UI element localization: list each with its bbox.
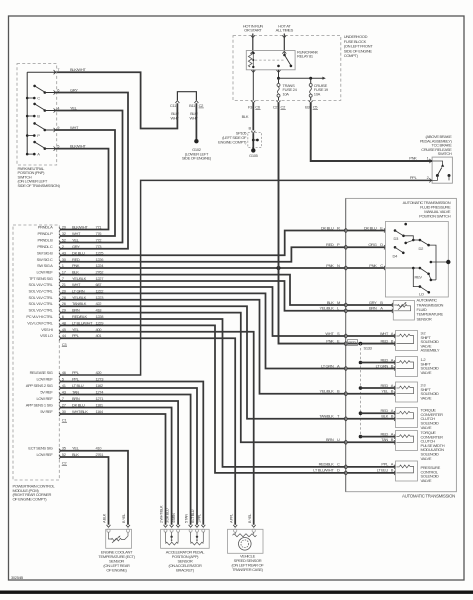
svg-text:TFT SENS SIG: TFT SENS SIG (29, 276, 53, 281)
svg-text:SOL VLV CTRL: SOL VLV CTRL (29, 282, 54, 287)
svg-text:5 TAN: 5 TAN (185, 514, 189, 523)
svg-text:VLV LOW CTRL: VLV LOW CTRL (27, 320, 53, 325)
ECT thermistor (109, 532, 112, 539)
wire DK BLU E into MVPS (347, 230, 385, 232)
svg-text:D3: D3 (394, 236, 400, 241)
svg-text:PRNDL C: PRNDL C (37, 244, 53, 249)
park/neutral position switch dashed box (17, 64, 57, 165)
MVPS switch D4 (394, 246, 397, 249)
1-2 shift solenoid valve coil (396, 362, 399, 364)
svg-text:TRANSFER CASE): TRANSFER CASE) (232, 567, 263, 572)
svg-text:B: B (391, 437, 394, 442)
wire BRN 1271 to APP pin 4 (60, 401, 178, 525)
wire TAN B to TCC PWM solenoid (347, 441, 396, 443)
wire YEL 400 to VSS (60, 332, 253, 525)
splice pack SP105 (248, 133, 262, 148)
svg-text:2: 2 (427, 175, 430, 180)
svg-text:C6: C6 (255, 105, 261, 110)
svg-text:ASSEMBLY: ASSEMBLY (421, 348, 440, 353)
PNP switch contact P (26, 134, 29, 137)
PNP common bus (26, 72, 28, 154)
trans connector pin N/C (PNK) (344, 266, 345, 270)
svg-text:D: D (380, 242, 383, 247)
torque converter clutch solenoid valve coil (396, 412, 399, 414)
wire YEL 772 PNP to PCM (55, 111, 123, 243)
svg-text:COMPT): COMPT) (344, 53, 359, 58)
svg-text:OR START: OR START (244, 28, 262, 33)
wire PPL 420 switch to PCM RELEASE SIG (60, 180, 432, 375)
svg-text:B: B (391, 468, 394, 473)
svg-text:A: A (391, 408, 394, 413)
svg-text:C: C (37, 96, 40, 101)
connector C2/C2 (277, 101, 281, 103)
wire BLK/WHT 771 PNP to PCM (55, 149, 109, 230)
svg-text:LOW REF: LOW REF (37, 377, 54, 382)
ground G102 (194, 139, 198, 143)
fuse CRUISE FUSE 19 10A (310, 78, 312, 83)
connector C11 (175, 101, 179, 103)
wire YEL B to 2-3 solenoid (347, 393, 396, 395)
APP pin 3 DK BLU (170, 525, 174, 527)
svg-text:SOL VLV CTRL: SOL VLV CTRL (29, 295, 54, 300)
wire WHT 687 to trans S (60, 287, 345, 336)
jumper C11 to B11 (177, 92, 196, 101)
svg-text:WHT: WHT (70, 125, 79, 130)
svg-text:WHT: WHT (170, 115, 179, 120)
svg-text:T: T (337, 414, 340, 419)
svg-text:RED: RED (381, 383, 389, 388)
wire PNK 1224 to trans N (60, 267, 345, 269)
wire: HOT IN RUN feed to relay coil (252, 34, 254, 51)
trans connector pass-through line (345, 198, 347, 491)
ground G105 (251, 148, 255, 152)
svg-text:P: P (337, 242, 340, 247)
3-2 shift solenoid valve assembly coil (396, 335, 399, 337)
svg-text:BRACKET): BRACKET) (176, 568, 195, 573)
APP pin 4 BRN (176, 525, 180, 527)
svg-text:S133: S133 (364, 346, 373, 351)
fuse TRANS FUSE 24 10A (278, 78, 280, 83)
VSS pin A PPL (233, 525, 237, 527)
wire PNK C into MVPS (347, 267, 385, 269)
wire RED A to 2-3 solenoid (361, 387, 396, 389)
svg-text:A: A (391, 431, 394, 436)
svg-text:6: 6 (57, 87, 60, 92)
svg-text:B: B (248, 126, 251, 131)
svg-text:PNK: PNK (409, 155, 417, 160)
svg-text:PC VLV HI CTRL: PC VLV HI CTRL (26, 314, 53, 319)
svg-text:A: A (337, 363, 340, 368)
svg-text:M: M (337, 300, 340, 305)
PNP switch contact B (26, 115, 29, 118)
trans connector pin S/A (WHT) (344, 334, 345, 338)
svg-text:U: U (337, 437, 340, 442)
MVPS switch REV (420, 268, 429, 274)
svg-text:REV: REV (415, 275, 423, 280)
wire GRY 773 PNP to PCM (55, 93, 129, 249)
svg-text:E: E (380, 225, 383, 230)
svg-text:APP SENS 1 SIG: APP SENS 1 SIG (26, 403, 53, 408)
svg-text:PRNDL B: PRNDL B (38, 238, 54, 243)
wire BRN A into TFT sensor (347, 310, 393, 312)
wire WHT A to 3-2 solenoid (347, 335, 396, 337)
wire TAN/BLK 422 to trans T (60, 306, 345, 419)
underhood fuse block dashed box (233, 36, 341, 101)
svg-text:SOL VLV CTRL: SOL VLV CTRL (29, 301, 54, 306)
svg-text:LT GRN: LT GRN (376, 363, 389, 368)
MVPS PNK row to REV (386, 267, 420, 269)
svg-text:AUTOMATIC TRANSMISSION: AUTOMATIC TRANSMISSION (402, 494, 455, 499)
wire ORG D into MVPS (347, 246, 385, 248)
trans connector pin C/A (RED/BLK) (344, 465, 345, 469)
svg-text:10A: 10A (314, 91, 321, 96)
label RED boxed (348, 340, 358, 346)
svg-text:POSITION SWITCH: POSITION SWITCH (419, 214, 451, 219)
wire LT BLU/WHT 1229 to trans D (60, 325, 345, 473)
svg-text:RELAY 81: RELAY 81 (297, 54, 314, 59)
switch internals (432, 161, 443, 164)
MVPS bus to output (429, 245, 436, 280)
svg-text:ENGINE COMPT): ENGINE COMPT) (218, 139, 247, 144)
svg-text:LOW REF: LOW REF (37, 452, 54, 457)
svg-text:WHT: WHT (72, 231, 81, 236)
svg-text:G105: G105 (249, 153, 259, 158)
svg-text:P: P (37, 133, 40, 138)
wire DK BLU 1225 to trans R (60, 231, 345, 256)
relay pin exits (251, 70, 255, 72)
VSS pickup coil (234, 532, 236, 534)
footer bar (0, 591, 473, 594)
wire DK BLU 1161 to APP pin 3 (60, 408, 171, 525)
svg-text:PNK: PNK (369, 263, 377, 268)
svg-text:A: A (37, 152, 40, 157)
svg-text:BLK: BLK (327, 300, 334, 305)
wire GRY B into TFT sensor (347, 304, 393, 306)
wire BLK/WHT circuit to C11 (55, 72, 178, 128)
APP sensor box (161, 529, 210, 548)
svg-text:OF ENGINE COMPT): OF ENGINE COMPT) (13, 496, 48, 501)
svg-text:ORG: ORG (368, 242, 376, 247)
wire BRN 418 to trans U (60, 313, 345, 443)
svg-text:GRY: GRY (70, 87, 78, 92)
svg-text:B: B (391, 389, 394, 394)
wire PNK from TRANS fuse to trans E (279, 103, 345, 344)
trans connector pin A/B (LT GRN) (344, 366, 345, 370)
svg-text:10A: 10A (283, 91, 290, 96)
wire PPL 401 to VSS (60, 338, 235, 525)
VSS pin B YEL (252, 525, 256, 527)
svg-text:DK BLU: DK BLU (364, 225, 377, 230)
svg-text:SIDE OF TRANSMISSION): SIDE OF TRANSMISSION) (18, 183, 61, 188)
MVPS branch to LO (413, 268, 420, 287)
svg-text:B: B (37, 114, 40, 119)
svg-text:ECT SENS SIG: ECT SENS SIG (28, 446, 52, 451)
PNP pin 4 (54, 108, 55, 112)
svg-text:LOW REF: LOW REF (37, 270, 54, 275)
wire PPL 1273 to APP pin 1 (60, 382, 203, 525)
svg-text:4 BRN: 4 BRN (172, 513, 176, 523)
S133 branch dot at 436.6 (359, 435, 363, 439)
wire BLK/WHT to ground (195, 103, 197, 139)
svg-text:D: D (337, 468, 340, 473)
svg-text:A: A (380, 306, 383, 311)
splice: PNK feed junction (276, 266, 280, 270)
svg-text:PRNDL P: PRNDL P (38, 231, 54, 236)
svg-text:A: A (391, 462, 394, 467)
svg-text:A BLK: A BLK (103, 513, 107, 523)
pressure control solenoid valve coil (396, 466, 399, 468)
svg-text:B: B (380, 300, 383, 305)
automatic transmission box (346, 198, 457, 491)
PNP switch contact C (26, 97, 29, 100)
wire BLK from F3 to SP105 (252, 103, 254, 130)
switch pin 2 (432, 176, 437, 181)
svg-text:VSS LO: VSS LO (40, 333, 53, 338)
svg-text:C2: C2 (62, 461, 68, 466)
svg-text:APP SENS 2 SIG: APP SENS 2 SIG (26, 383, 53, 388)
svg-text:1: 1 (427, 155, 430, 160)
svg-text:B: B (391, 363, 394, 368)
svg-text:6 LT BLU: 6 LT BLU (191, 509, 195, 523)
svg-text:C1: C1 (62, 418, 68, 423)
svg-text:C2: C2 (273, 105, 279, 110)
relay coil (251, 51, 255, 53)
wire LT BLU 1162 to APP pin 6 (60, 388, 197, 525)
wire WHT 776 PNP to PCM (55, 130, 116, 236)
svg-text:YEL/BLK: YEL/BLK (320, 306, 335, 311)
svg-text:SW SIG A: SW SIG A (37, 263, 53, 268)
APP potentiometer 2 (190, 532, 192, 543)
S133 branch dot at 388.0 (359, 386, 363, 390)
svg-text:C2: C2 (199, 103, 205, 108)
wire RED A to TCC solenoid (361, 412, 396, 414)
svg-text:R: R (337, 225, 340, 230)
svg-text:RED: RED (381, 408, 389, 413)
relay switch (282, 51, 286, 53)
torque converter clutch PWM solenoid valve box (396, 431, 418, 451)
VSS reluctor ring (239, 538, 252, 551)
wire PPL A to pressure control solenoid (347, 466, 396, 468)
svg-text:DK BLU: DK BLU (321, 225, 334, 230)
svg-text:C5: C5 (313, 105, 319, 110)
svg-text:B YEL: B YEL (248, 514, 252, 523)
svg-text:LT BLU/WHT: LT BLU/WHT (313, 468, 334, 473)
svg-text:YEL/BLK: YEL/BLK (320, 389, 335, 394)
svg-text:A PPL: A PPL (229, 514, 233, 523)
svg-text:VALVE: VALVE (421, 396, 432, 401)
svg-text:5V REF: 5V REF (40, 390, 53, 395)
svg-text:S: S (337, 331, 340, 336)
svg-text:SW SIG B: SW SIG B (37, 250, 53, 255)
MVPS switch LO (420, 287, 429, 293)
S133 branch dot at 362.5 (359, 361, 363, 365)
splice S133 (359, 342, 363, 346)
svg-text:BLK: BLK (381, 414, 388, 419)
svg-text:TAN/BLK: TAN/BLK (319, 414, 334, 419)
svg-text:5: 5 (57, 143, 60, 148)
svg-text:WHT: WHT (325, 331, 334, 336)
svg-text:TAN: TAN (381, 437, 388, 442)
svg-text:5V REF: 5V REF (40, 409, 53, 414)
svg-text:RED: RED (381, 357, 389, 362)
wire LT GRN B to 1-2 solenoid (347, 368, 396, 370)
wire PNK cruise fuse to switch pin 1 (311, 103, 432, 161)
svg-text:2 WHT/BLK: 2 WHT/BLK (160, 505, 164, 523)
torque converter clutch solenoid valve box (396, 408, 418, 428)
svg-text:PNK: PNK (326, 338, 334, 343)
svg-text:B11: B11 (189, 103, 196, 108)
svg-text:RED: RED (381, 431, 389, 436)
pressure control solenoid valve box (396, 461, 418, 481)
trans connector pin R/E (DK BLU) (344, 228, 345, 232)
svg-text:B YEL: B YEL (122, 514, 126, 523)
MVPS node chain D3-D2 (404, 236, 414, 240)
APP pin 5 TAN (189, 525, 193, 527)
svg-text:YEL: YEL (381, 389, 389, 394)
svg-text:1 PPL: 1 PPL (197, 514, 201, 523)
svg-text:SOL VLV CTRL: SOL VLV CTRL (29, 288, 54, 293)
svg-text:A: A (391, 383, 394, 388)
wire BLK B to TCC solenoid (347, 418, 396, 420)
wire WHT/BLK 1164 to APP pin 2 (60, 414, 165, 525)
svg-text:LT GRN: LT GRN (321, 363, 334, 368)
trans connector pin U/B (BRN) (344, 440, 345, 444)
trans connector pin B/B (YEL/BLK) (344, 392, 345, 396)
svg-text:B: B (391, 414, 394, 419)
wire LT BLU B to pressure control solenoid (347, 472, 396, 474)
ECT pin B YEL (126, 525, 130, 527)
wire YEL/BLK 1223 to trans B (60, 300, 345, 394)
svg-text:BRN: BRN (326, 437, 334, 442)
wire RED B feed with splice S133 (347, 343, 396, 345)
trans connector pin L/A (YEL/BLK) (344, 309, 345, 313)
svg-text:PPL: PPL (72, 370, 80, 375)
S133 branch dot at 413.2 (359, 411, 363, 415)
VSS sensor box (228, 529, 264, 553)
TCC brake cruise release switch box (432, 157, 452, 183)
svg-text:VALVE: VALVE (421, 456, 432, 461)
wire RED A to 1-2 solenoid (361, 362, 396, 364)
svg-text:RELEASE SIG: RELEASE SIG (30, 370, 53, 375)
APP potentiometer 1 (165, 532, 167, 543)
trans connector pin E/B (PNK) (344, 342, 345, 346)
svg-text:ALL TIMES: ALL TIMES (276, 28, 294, 33)
svg-text:C: C (380, 263, 383, 268)
MVPS switch D2 (413, 239, 420, 241)
svg-text:4: 4 (57, 105, 60, 110)
svg-text:N: N (337, 263, 340, 268)
wire YEL/BLK 1227 to trans L (60, 281, 345, 311)
wire LT GRN 1222 to trans A (60, 293, 345, 368)
svg-text:OF ENGINE): OF ENGINE) (106, 568, 127, 573)
wire YEL 410 to ECT pin B (60, 451, 128, 525)
svg-text:F3: F3 (248, 105, 253, 110)
trans connector pin T/B (TAN/BLK) (344, 417, 345, 421)
wire BLK 2762 to trans M (60, 275, 345, 305)
automatic transmission fluid temperature sensor box (393, 301, 414, 321)
wire RED A to TCC PWM solenoid (361, 436, 396, 438)
svg-text:BLK/WHT: BLK/WHT (72, 225, 88, 230)
2-3 shift solenoid valve box (396, 382, 418, 402)
svg-text:GRY: GRY (72, 244, 80, 249)
S133 red feed bus (dashed) (360, 344, 362, 437)
wire RED 1226 to trans P (60, 247, 345, 261)
3-2 shift solenoid valve assembly box (396, 331, 418, 351)
PNP pin 9 (54, 128, 55, 132)
wire: HOT AT ALL TIMES feed to relay switch (283, 34, 285, 51)
svg-text:RED: RED (348, 340, 356, 345)
manual valve position switch box (385, 222, 448, 298)
svg-text:7: 7 (57, 67, 60, 72)
svg-text:A: A (391, 331, 394, 336)
svg-text:C: C (337, 462, 340, 467)
powertrain control module dashed box (13, 225, 59, 480)
connector B11/C2 (194, 101, 198, 103)
svg-text:LT BLU: LT BLU (377, 468, 389, 473)
trans connector pin P/D (RED) (344, 245, 345, 249)
svg-text:C11: C11 (170, 103, 177, 108)
svg-text:VALVE: VALVE (421, 478, 432, 483)
PNP pin 5 (54, 147, 55, 151)
wire BLK 2761 to ECT pin A (60, 457, 108, 525)
svg-text:BLK/WHT: BLK/WHT (70, 143, 86, 148)
ECT sensor box (106, 529, 132, 548)
svg-text:PRNDL A: PRNDL A (38, 225, 53, 230)
APP pin 6 LT BLU (195, 525, 199, 527)
relay RUN/CRANK RELAY 81 box (246, 51, 295, 70)
feed bus to fuses (277, 77, 280, 80)
svg-text:3 DK BLU: 3 DK BLU (166, 508, 170, 523)
svg-text:GRY: GRY (369, 300, 377, 305)
trans connector pin D/B (LT BLU/WHT) (344, 471, 345, 475)
svg-text:PNK: PNK (326, 263, 334, 268)
svg-text:SOL VLV CTRL: SOL VLV CTRL (29, 308, 54, 313)
svg-text:D4: D4 (393, 253, 399, 258)
connector F3/C6 (251, 101, 255, 103)
svg-text:SWITCH: SWITCH (438, 151, 452, 156)
svg-text:D2: D2 (419, 246, 425, 251)
svg-text:B: B (337, 389, 340, 394)
1-2 shift solenoid valve box (396, 357, 418, 377)
MVPS output junction (446, 260, 450, 264)
trans connector pin M/B (BLK) (344, 303, 345, 307)
PNP pin 7 (54, 70, 55, 74)
svg-text:PPL: PPL (410, 175, 418, 180)
svg-text:C3: C3 (62, 342, 68, 347)
svg-text:BRN: BRN (369, 306, 377, 311)
svg-text:YEL: YEL (70, 105, 78, 110)
ECT pin A BLK (107, 525, 111, 527)
svg-text:LOW REF: LOW REF (37, 396, 54, 401)
2-3 shift solenoid valve coil (396, 387, 399, 389)
svg-text:VSS HI: VSS HI (41, 327, 52, 332)
svg-text:L: L (337, 306, 340, 311)
svg-text:SW SIG C: SW SIG C (37, 257, 53, 262)
svg-text:SIDE OF ENGINE): SIDE OF ENGINE) (182, 156, 212, 161)
MVPS switch D3 (394, 229, 397, 232)
svg-text:LO: LO (419, 291, 424, 296)
torque converter clutch PWM solenoid valve coil (396, 436, 399, 438)
PNP pin 6 (54, 90, 55, 94)
svg-text:A: A (391, 357, 394, 362)
svg-text:SENSOR: SENSOR (417, 316, 432, 321)
svg-text:YEL: YEL (72, 238, 80, 243)
svg-text:WHT: WHT (380, 331, 389, 336)
svg-text:RED/BLK: RED/BLK (319, 462, 335, 467)
svg-text:VALVE: VALVE (421, 370, 432, 375)
relay link (dashed) (255, 59, 284, 61)
wire RED/BLK 1228 to trans C (60, 319, 345, 467)
